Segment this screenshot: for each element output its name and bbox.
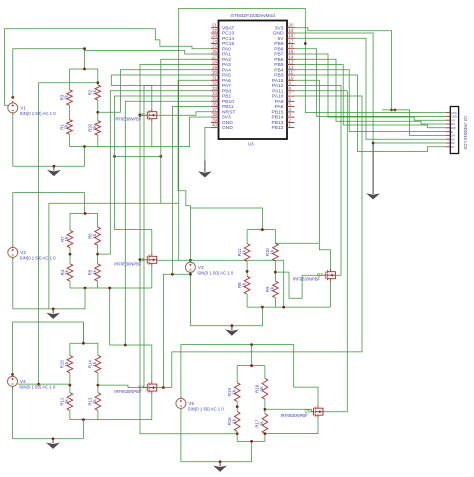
IC U3 STM32F103DevMod microcontroller <box>219 21 288 140</box>
ground block5 <box>219 462 221 467</box>
voltage source V4 <box>8 376 18 386</box>
ground LCD <box>372 143 374 194</box>
transistor Q3 IRF9530NPBF <box>144 259 147 261</box>
node V3- junction <box>189 273 192 276</box>
wire block5 right column middle <box>264 399 266 413</box>
wire V4 side link to left mid <box>18 383 70 385</box>
wire block2 ground rail <box>13 308 85 310</box>
wire block1 sense to MCU PA4 <box>98 70 211 113</box>
svg-text:GND: GND <box>273 31 284 37</box>
svg-text:V2: V2 <box>20 250 26 255</box>
node Q5 source junction <box>264 432 267 435</box>
svg-text:IRF9530NPBF: IRF9530NPBF <box>114 389 142 394</box>
wire block1 ground riser <box>84 147 86 167</box>
svg-text:PB5: PB5 <box>274 62 284 68</box>
wire V1 left terminal loop to MCU PA0 <box>4 29 211 106</box>
transistor Q5 IRF9530NPBF <box>311 411 314 413</box>
resistor R6 <box>95 227 101 245</box>
node block3 ground junction <box>231 324 234 327</box>
ground block4 <box>52 439 54 444</box>
wire block3 feed from MCU PA6 <box>178 80 262 229</box>
svg-text:V5: V5 <box>188 401 194 406</box>
svg-text:GND: GND <box>222 125 233 131</box>
node 3V3 LCD junction <box>390 109 393 112</box>
wire V5+ up and right to Q5 drain <box>181 345 318 406</box>
wire PB6 to LCD row4 <box>295 59 447 124</box>
wire block5 ground rail <box>181 461 252 463</box>
wire Q1 source to bottom rail <box>151 122 153 147</box>
wire block1 right column top <box>97 69 99 85</box>
node block5 bottom rail junction <box>250 440 253 443</box>
resistor R13 <box>95 393 101 411</box>
node block1 top rail junction <box>83 68 86 71</box>
svg-text:18: 18 <box>289 33 294 38</box>
svg-text:IRF9530NPBF: IRF9530NPBF <box>281 413 309 418</box>
voltage source V5 <box>176 398 186 408</box>
node PB9 junction <box>304 42 307 45</box>
resistor R10 <box>273 243 279 261</box>
resistor R18 <box>262 378 268 399</box>
node block2 bottom rail junction <box>84 287 87 290</box>
svg-text:1k: 1k <box>259 386 264 391</box>
wire Q5 source to right column <box>265 418 318 433</box>
node block2 left mid junction <box>69 253 72 256</box>
wire V1- down <box>12 113 14 166</box>
resistor R3 <box>67 90 73 106</box>
svg-text:VBAT: VBAT <box>222 25 234 31</box>
voltage source V1 <box>8 103 18 113</box>
resistor R1 <box>67 120 73 135</box>
svg-text:1k: 1k <box>92 89 97 94</box>
svg-text:13: 13 <box>289 60 294 65</box>
wire block1 bottom rail <box>70 146 152 148</box>
wire PA7 down to Q4 gate <box>144 86 211 388</box>
svg-text:1k: 1k <box>64 236 69 241</box>
svg-text:PA12: PA12 <box>272 83 284 89</box>
svg-text:40: 40 <box>212 123 217 128</box>
svg-text:1k: 1k <box>259 420 264 425</box>
svg-text:PB15: PB15 <box>272 110 284 116</box>
wire block3 bottom rail <box>247 306 330 308</box>
node block1 takeoff junction <box>96 81 99 84</box>
svg-text:1k: 1k <box>231 389 236 394</box>
wire PA2 riser <box>161 59 211 203</box>
resistor R7 <box>67 230 73 247</box>
svg-text:1k: 1k <box>231 418 236 423</box>
wire block3 left column bottom <box>246 294 248 307</box>
svg-text:SIN(0 1 50) AC 1 0: SIN(0 1 50) AC 1 0 <box>19 385 56 390</box>
wire V3+ riser to feed <box>189 208 191 260</box>
node block3 rail ext junction <box>282 306 285 309</box>
wire block3 left column top <box>246 230 248 244</box>
svg-text:21: 21 <box>212 23 217 28</box>
svg-text:10: 10 <box>289 75 294 80</box>
svg-text:1k: 1k <box>64 398 69 403</box>
svg-text:PA5: PA5 <box>222 73 231 79</box>
wire Q3 drain feed from MCU PB1 <box>115 96 212 253</box>
svg-text:SIN(0 1 50) AC 1 0: SIN(0 1 50) AC 1 0 <box>188 407 225 412</box>
wire PB11 long vertical <box>172 107 211 275</box>
svg-text:PA2: PA2 <box>222 57 231 63</box>
svg-text:28: 28 <box>212 60 217 65</box>
wire block3 right column middle <box>274 261 276 281</box>
wire block4 ground riser <box>82 420 84 439</box>
node Q3 gate tap <box>139 258 142 261</box>
wire block1 takeoff down to block4 mid <box>39 83 98 384</box>
svg-text:26: 26 <box>212 49 217 54</box>
svg-text:PB1: PB1 <box>222 94 232 100</box>
ground MCU <box>204 161 206 173</box>
svg-text:16: 16 <box>289 44 294 49</box>
svg-text:PA11: PA11 <box>272 88 284 94</box>
svg-text:V3: V3 <box>198 265 204 270</box>
wire V4 long sense rail <box>49 202 179 204</box>
svg-text:NRST: NRST <box>222 110 235 116</box>
svg-text:5V: 5V <box>278 36 285 42</box>
node block4 top rail junction <box>82 342 85 345</box>
svg-text:V1: V1 <box>20 105 26 110</box>
wire block3 right column top <box>274 230 276 244</box>
svg-text:PB11: PB11 <box>222 104 234 110</box>
wire Q4 drain feed from MCU PB10 <box>125 101 211 381</box>
node block2 sense junction <box>96 253 99 256</box>
svg-text:PA8: PA8 <box>275 104 284 110</box>
wire block4 left column top <box>69 343 71 355</box>
svg-text:PB14: PB14 <box>272 115 284 121</box>
wire PB8 to LCD row2 <box>295 49 447 117</box>
wire Q1 gate stub <box>140 114 144 116</box>
svg-text:GND: GND <box>222 120 233 126</box>
wire block4 bottom rail <box>70 419 152 421</box>
resistor R9 <box>273 281 279 298</box>
wire block4 top rail <box>70 342 98 344</box>
wire block1 ground rail <box>13 165 85 167</box>
resistor R15 <box>67 355 73 373</box>
wire block4 feed riser <box>82 323 84 344</box>
svg-text:1k: 1k <box>270 286 275 291</box>
svg-text:PB0: PB0 <box>222 88 232 94</box>
svg-text:PB10: PB10 <box>222 99 234 105</box>
svg-text:31: 31 <box>212 75 217 80</box>
node block4 sense junction <box>97 384 100 387</box>
ground block2 <box>52 309 54 314</box>
resistor R17 <box>262 414 268 434</box>
wire Q3 source to bottom rail <box>151 266 153 288</box>
wire V4- down <box>12 386 14 438</box>
wire PB7 to LCD row3 <box>295 54 447 120</box>
wire block4 right column bottom <box>97 411 99 420</box>
node block5 left mid junction <box>236 405 239 408</box>
wire Q1 right to MCU NRST <box>157 112 211 116</box>
wire Q5 gate from block5 sense <box>265 409 313 411</box>
svg-text:1k: 1k <box>270 249 275 254</box>
svg-text:PA9: PA9 <box>275 99 284 105</box>
wire PB5 to LCD row5 <box>295 65 447 128</box>
svg-text:PA6: PA6 <box>222 78 231 84</box>
wire block5 left column middle <box>236 402 238 412</box>
resistor R16 <box>234 412 240 432</box>
node 3V3 LCD junction b <box>394 109 397 112</box>
wire Q4 source to bottom rail <box>151 394 153 420</box>
svg-text:PA15: PA15 <box>272 78 284 84</box>
wire block2 bottom rail <box>70 287 152 289</box>
wire V3+ stub <box>189 260 191 262</box>
wire block1 left column top <box>69 69 71 90</box>
wire block5 bottom rail <box>237 440 265 442</box>
wire block3 ground rail <box>190 325 262 327</box>
wire PA10 long route <box>163 96 362 388</box>
wire block2 ground riser <box>84 288 86 309</box>
svg-text:PA10: PA10 <box>272 94 284 100</box>
svg-text:PB4: PB4 <box>274 67 284 73</box>
resistor R19 <box>234 383 240 402</box>
wire 3V3 dive to LCD row7 <box>382 110 446 135</box>
wire R10 top to PA15 vertical <box>275 242 319 244</box>
node block2 top rail junction <box>84 212 87 215</box>
resistor R8 <box>244 276 250 294</box>
svg-text:30: 30 <box>212 70 217 75</box>
svg-text:1k: 1k <box>64 361 69 366</box>
voltage source V2 <box>8 247 18 257</box>
svg-text:D7: D7 <box>451 145 455 149</box>
wire block3 top rail <box>247 229 275 231</box>
svg-text:3V3: 3V3 <box>222 115 231 121</box>
svg-text:1k: 1k <box>92 269 97 274</box>
svg-text:SIN(0 1 50) AC 1 0: SIN(0 1 50) AC 1 0 <box>197 271 234 276</box>
svg-text:23: 23 <box>212 33 217 38</box>
svg-text:PB13: PB13 <box>272 120 284 126</box>
wire block2 left column bottom <box>69 281 71 288</box>
svg-text:11: 11 <box>289 70 294 75</box>
wire Q4 right to junction <box>157 387 164 389</box>
svg-text:PB3: PB3 <box>274 73 284 79</box>
resistor R11 <box>244 244 250 262</box>
wire block5 left column bottom <box>236 431 238 441</box>
svg-text:PB12: PB12 <box>272 125 284 131</box>
svg-text:PA4: PA4 <box>222 67 231 73</box>
wire V2+ up and over to rail <box>13 193 85 248</box>
resistor R2 <box>95 85 101 100</box>
transistor Q1 IRF9530NPBF <box>144 114 147 116</box>
svg-text:PA3: PA3 <box>222 62 231 68</box>
svg-text:PC13: PC13 <box>222 31 235 37</box>
node Q4 drain link junction <box>124 344 127 347</box>
svg-text:1k: 1k <box>92 398 97 403</box>
svg-text:1k: 1k <box>241 249 246 254</box>
node block3 bottom rail junction <box>261 306 264 309</box>
wire block4 left column middle <box>69 373 71 393</box>
wire block3 ground riser <box>261 307 263 326</box>
svg-text:PB7: PB7 <box>274 52 284 58</box>
svg-text:1k: 1k <box>64 94 69 99</box>
wire block1 top rail <box>70 68 98 70</box>
svg-text:IRF9530NPBF: IRF9530NPBF <box>114 117 142 122</box>
svg-text:PB8: PB8 <box>274 46 284 52</box>
wire V1+ up and right to divider top <box>13 49 85 98</box>
wire V3- branch west down <box>163 274 190 387</box>
wire V3- down <box>189 272 191 325</box>
wire V5- down <box>180 408 182 461</box>
node block1 ground junction <box>53 165 56 168</box>
wire MCU GND pin to ground <box>205 128 211 161</box>
svg-text:IRF9530NPBF: IRF9530NPBF <box>114 261 142 266</box>
node cross link junction A <box>113 155 116 158</box>
wire GND to LCD junction <box>295 33 374 143</box>
svg-text:SIN(0 1 50) AC 1 0: SIN(0 1 50) AC 1 0 <box>20 256 57 261</box>
node block2 rail link junction <box>108 287 111 290</box>
svg-text:PC14: PC14 <box>222 36 235 42</box>
wire 5V to LCD row8 <box>295 38 447 139</box>
wire block2 top rail <box>70 213 98 215</box>
svg-text:PA0: PA0 <box>222 46 231 52</box>
svg-text:33: 33 <box>212 86 217 91</box>
connector U2 LCD <box>450 107 458 154</box>
wire block2 left column middle <box>69 248 71 264</box>
wire PB3 to LCD row10 <box>295 75 447 152</box>
wire block1 right column bottom <box>97 135 99 146</box>
node block5 feed junction <box>250 343 253 346</box>
wire 3V3 run to LCD <box>295 28 392 110</box>
wire block4 right column middle <box>97 373 99 393</box>
wire Q3 source net long horizontal <box>157 260 284 307</box>
wire V1+ sense to MCU PA1 <box>85 50 212 54</box>
wire block5 left column top <box>236 366 238 383</box>
wire Q5 right to MCU PA11 <box>323 411 347 413</box>
transistor Q2 IRF9530NPBF <box>323 274 326 276</box>
node PB11 V3- junction <box>171 273 174 276</box>
wire top loop feed <box>179 9 446 261</box>
node block3 left mid junction <box>246 270 249 273</box>
svg-text:20: 20 <box>289 23 294 28</box>
wire PB4 to LCD row6 <box>295 70 447 132</box>
wire LCD ground row <box>373 142 446 144</box>
node block2 ground junction <box>52 308 55 311</box>
wire block5 feed riser <box>251 345 253 366</box>
node block5 sense junction <box>264 408 267 411</box>
wire block4 ground rail <box>13 438 84 440</box>
svg-text:36: 36 <box>212 102 217 107</box>
wire block1 left column middle <box>69 105 71 119</box>
node block3 sense junction <box>274 271 277 274</box>
wire block4 right column top <box>97 343 99 355</box>
node block5 left link junction <box>236 432 239 435</box>
svg-text:1k: 1k <box>64 124 69 129</box>
svg-text:1k: 1k <box>64 269 69 274</box>
voltage source V3 <box>185 262 195 272</box>
svg-text:3V3: 3V3 <box>275 25 284 31</box>
svg-text:U2 JHD0910 LCD: U2 JHD0910 LCD <box>463 116 468 150</box>
wire Q1 drain feed from MCU PA5 <box>111 75 211 109</box>
svg-text:PA1: PA1 <box>222 52 231 58</box>
wire long rail west drop <box>48 203 50 309</box>
wire Q2 right to MCU PA12 <box>295 86 342 276</box>
node block1 sense junction <box>96 111 99 114</box>
wire block5 ground riser <box>251 441 253 461</box>
wire block2 rail link down to Q4 drain <box>110 288 126 345</box>
wire block1 right column middle <box>97 100 99 121</box>
wire block5 top rail <box>237 365 265 367</box>
svg-text:SIN(0 1 50) AC 1 0: SIN(0 1 50) AC 1 0 <box>20 111 57 116</box>
resistor R20 <box>95 121 101 136</box>
node block5 ground junction <box>219 460 222 463</box>
svg-text:35: 35 <box>212 96 217 101</box>
svg-text:PB9: PB9 <box>274 41 284 47</box>
wire block2 left column top <box>69 214 71 231</box>
wire Q4 gate from block4 sense <box>98 385 144 388</box>
node block4 left mid junction <box>69 384 72 387</box>
wire V2- down <box>12 257 14 309</box>
node cross link junction B <box>159 155 162 158</box>
node block4 ground junction <box>52 437 55 440</box>
svg-text:IRF9530NPBF: IRF9530NPBF <box>293 277 321 282</box>
wire block5 right column top <box>264 366 266 379</box>
node V3+ junction <box>189 259 192 262</box>
wire block2 right column bottom <box>97 281 99 288</box>
wire Q3 gate stub <box>140 259 144 261</box>
svg-text:1k: 1k <box>92 125 97 130</box>
svg-text:25: 25 <box>212 44 217 49</box>
resistor R5 <box>95 264 101 281</box>
node Q1 gate tap <box>139 114 142 117</box>
wire block3 left column middle <box>246 262 248 277</box>
wire PA11 long route <box>295 91 348 412</box>
wire block1 left column bottom <box>69 134 71 146</box>
node block3 top rail junction <box>261 228 264 231</box>
wire block2 right column middle <box>97 245 99 263</box>
svg-text:U3: U3 <box>248 142 254 147</box>
node block5 top rail junction <box>250 364 253 367</box>
ground block1 <box>53 166 55 171</box>
svg-text:PA7: PA7 <box>222 83 231 89</box>
wire Q2 gate from block3 sense <box>275 272 323 298</box>
resistor R4 <box>67 264 73 281</box>
svg-text:1k: 1k <box>92 361 97 366</box>
svg-text:38: 38 <box>212 112 217 117</box>
svg-text:PB6: PB6 <box>274 57 284 63</box>
svg-text:STM32F103DevMod: STM32F103DevMod <box>231 13 276 19</box>
node V1+ junction <box>11 96 14 99</box>
wire cross link <box>115 155 161 157</box>
node divider1 feed junction <box>83 47 86 50</box>
resistor R14 <box>95 355 101 373</box>
node V4+ junction <box>11 373 14 376</box>
transistor Q4 IRF9530NPBF <box>144 387 147 389</box>
wire PA3 gate trunk down to block5 link <box>140 65 237 434</box>
svg-text:PC15: PC15 <box>222 41 235 47</box>
wire block3 right column bottom <box>274 298 276 308</box>
wire block4 left column bottom <box>69 411 71 420</box>
node LCD ground junction <box>372 142 375 145</box>
wire block1 bottom rail to MCU 3V3 <box>152 117 211 147</box>
svg-text:15: 15 <box>289 49 294 54</box>
node block4 bottom rail junction <box>82 418 85 421</box>
svg-text:V4: V4 <box>20 379 26 384</box>
wire block2 sense to MCU PB0 <box>98 91 211 254</box>
wire V4+ feed up to block4 top rail <box>13 322 84 374</box>
wire Q2 drain feed from MCU PA15 <box>295 80 331 269</box>
svg-text:1k: 1k <box>92 233 97 238</box>
node takeoff block4 junction <box>37 383 40 386</box>
node block1 bottom rail junction <box>83 145 86 148</box>
wire Q2 source down to rail <box>329 282 331 307</box>
svg-text:1k: 1k <box>241 282 246 287</box>
resistor R12 <box>67 393 73 411</box>
node Q4 right junction <box>162 386 165 389</box>
wire block2 right column top <box>97 214 99 227</box>
wire block5 right column bottom <box>264 434 266 442</box>
ground block3 <box>231 326 233 331</box>
